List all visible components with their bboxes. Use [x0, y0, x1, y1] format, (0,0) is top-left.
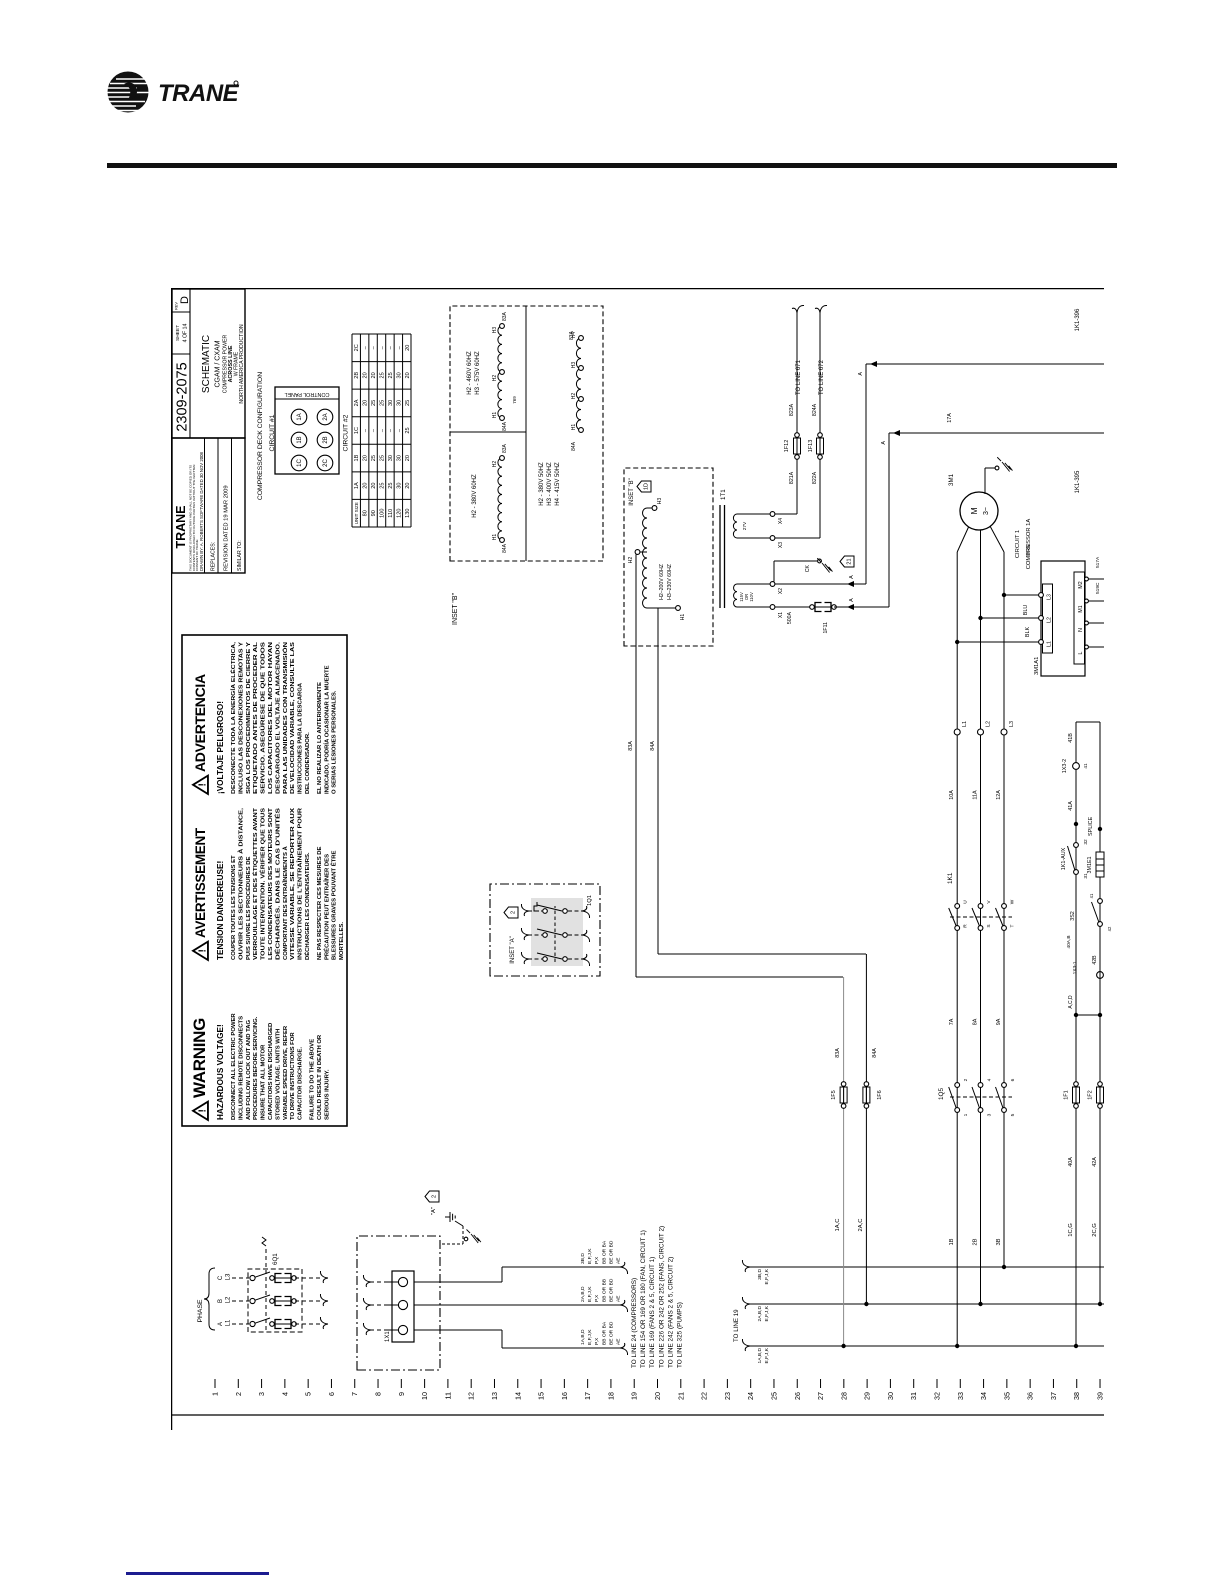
svg-text:BLESSURES GRAVES POUVANT ÊTRE: BLESSURES GRAVES POUVANT ÊTRE — [330, 851, 338, 960]
warning column ADVERTENCIA — [192, 641, 338, 794]
svg-text:110V: 110V — [749, 592, 754, 602]
svg-text:40A: 40A — [1068, 1157, 1074, 1167]
wire into 1X1 from phase B — [363, 1298, 398, 1310]
svg-text:H2: H2 — [628, 557, 634, 564]
svg-text:H3: H3 — [657, 498, 663, 505]
svg-text:SIMILAR TO:: SIMILAR TO: — [237, 540, 243, 571]
disconnect switch 6Q1 box — [248, 1237, 302, 1332]
svg-text:"A": "A" — [431, 1207, 437, 1215]
svg-text:A: A — [881, 441, 887, 445]
control circuit to line 671 — [775, 305, 804, 514]
transformer 1T1 secondary 27V winding X3 X4 — [733, 512, 784, 548]
line 28 rung 1A,C — [831, 977, 847, 1348]
svg-text:–: – — [363, 345, 369, 349]
svg-text:!: ! — [198, 783, 209, 786]
svg-text:SERVICIO. ASEGÚRESE DE QUE TO: SERVICIO. ASEGÚRESE DE QUE TODOS — [260, 642, 267, 794]
svg-text:1A: 1A — [354, 482, 360, 489]
svg-text:TOUTE INTERVENTION. VÉRIFIER: TOUTE INTERVENTION. VÉRIFIER QUE TOUS — [259, 808, 267, 960]
svg-text:11A: 11A — [973, 790, 979, 800]
svg-text:1A,C: 1A,C — [835, 1219, 841, 1232]
svg-text:L1: L1 — [1047, 641, 1053, 647]
svg-text:–: – — [388, 345, 394, 349]
svg-text:20: 20 — [363, 400, 369, 406]
transformer 1T1 core — [720, 489, 727, 608]
svg-text:ADVERTENCIA: ADVERTENCIA — [192, 674, 208, 772]
svg-text:SPLICE: SPLICE — [1088, 816, 1094, 836]
svg-text:ETIQUETADO ANTES DE PROCEDER A: ETIQUETADO ANTES DE PROCEDER AL — [253, 641, 259, 794]
svg-text:TRANE: TRANE — [174, 505, 188, 548]
svg-text:H3: H3 — [492, 327, 498, 334]
svg-text:1T1: 1T1 — [720, 489, 727, 500]
svg-text:30: 30 — [396, 455, 402, 461]
svg-text:1X3-1: 1X3-1 — [1072, 961, 1078, 974]
svg-text:2A,C: 2A,C — [858, 1219, 864, 1232]
svg-text:–: – — [380, 345, 386, 349]
svg-text:84A: 84A — [502, 543, 508, 553]
svg-text:REVISION DATED 19 MAR 2009: REVISION DATED 19 MAR 2009 — [224, 485, 230, 571]
ground symbols near 1X1 — [442, 1212, 481, 1244]
terminal block 1X1 — [385, 1271, 414, 1342]
svg-text:2B: 2B — [354, 372, 360, 379]
svg-text:6: 6 — [327, 1392, 336, 1396]
svg-text:HAZARDOUS VOLTAGE!: HAZARDOUS VOLTAGE! — [216, 1024, 225, 1120]
svg-text:INSET "B": INSET "B" — [629, 478, 635, 506]
svg-text:TO LINE 226 OR 242 OR 252 (FAN: TO LINE 226 OR 242 OR 252 (FANS, CIRCUIT… — [658, 1226, 665, 1368]
svg-text:84A: 84A — [502, 421, 508, 431]
rotated schematic — [171, 288, 1117, 1430]
svg-text:A: A — [858, 372, 864, 376]
svg-text:30: 30 — [388, 400, 394, 406]
breaker 1Q1 pole at 495 — [521, 928, 589, 942]
svg-text:32: 32 — [1083, 839, 1089, 845]
svg-text:FAILURE TO DO THE ABOVE: FAILURE TO DO THE ABOVE — [310, 1039, 316, 1120]
compressor circle 2A — [317, 409, 333, 425]
svg-text:1K1: 1K1 — [947, 872, 954, 884]
svg-text:27V: 27V — [742, 521, 748, 530]
svg-text:P,X: P,X — [594, 1256, 600, 1264]
svg-text:1F5: 1F5 — [831, 1090, 837, 1099]
svg-text:41: 41 — [1089, 893, 1094, 898]
svg-text:PARA LAS UNIDADES CON TRANSMIS: PARA LAS UNIDADES CON TRANSMISIÓN — [281, 642, 289, 794]
svg-text:1K1-396: 1K1-396 — [1075, 308, 1081, 331]
svg-text:COUPER TOUTES LES TENSIONS ET: COUPER TOUTES LES TENSIONS ET — [231, 855, 237, 960]
svg-text:!: ! — [198, 1109, 209, 1112]
svg-text:WARNING: WARNING — [190, 1018, 209, 1098]
heater box output wires 519C 517A — [1085, 556, 1104, 649]
svg-text:X4: X4 — [778, 518, 784, 524]
svg-text:9: 9 — [397, 1392, 406, 1396]
svg-text:1C,G: 1C,G — [1068, 1223, 1074, 1237]
svg-text:AE: AE — [616, 1257, 622, 1264]
svg-text:130: 130 — [405, 509, 411, 518]
svg-text:2: 2 — [234, 1392, 243, 1396]
terminal 1X3-2 — [1062, 733, 1089, 811]
svg-text:L1: L1 — [962, 721, 968, 727]
svg-text:11: 11 — [443, 1392, 452, 1399]
svg-text:DÉCHARGER LES CONDENSATEURS.: DÉCHARGER LES CONDENSATEURS. — [303, 852, 311, 960]
winding option 50HZ taps — [539, 330, 583, 505]
rung 38-39 end connector — [1076, 721, 1100, 723]
svg-text:S: S — [986, 924, 992, 927]
svg-text:BB OR BB: BB OR BB — [601, 1279, 607, 1302]
breaker 1Q5 linkage — [938, 1088, 1012, 1101]
svg-text:PHASE: PHASE — [197, 1299, 204, 1323]
svg-text:12: 12 — [467, 1392, 476, 1400]
svg-text:CIRCUIT #2: CIRCUIT #2 — [343, 414, 350, 451]
svg-text:24: 24 — [746, 1392, 755, 1400]
svg-text:41A: 41A — [1068, 801, 1074, 811]
svg-text:30: 30 — [886, 1392, 895, 1400]
svg-text:M1: M1 — [1078, 605, 1084, 612]
svg-text:35: 35 — [1002, 1392, 1011, 1400]
wire feed from X2 — [775, 575, 866, 587]
svg-text:BLK: BLK — [1025, 627, 1031, 638]
switch 3S2 — [1070, 893, 1112, 931]
svg-text:25: 25 — [380, 483, 386, 489]
svg-text:3M1: 3M1 — [948, 473, 955, 486]
svg-text:18: 18 — [606, 1392, 615, 1400]
compressor motor 3M1 — [948, 473, 1032, 729]
svg-text:¡VOLTAJE PELIGROSO!: ¡VOLTAJE PELIGROSO! — [216, 701, 225, 794]
wire into 1X1 from phase C — [363, 1275, 398, 1287]
svg-text:10A: 10A — [949, 790, 955, 800]
line 38 rung 1C,G — [1064, 722, 1080, 1348]
svg-text:31: 31 — [1083, 873, 1089, 879]
svg-text:1Q1: 1Q1 — [587, 895, 593, 906]
compressor deck configuration heading — [257, 372, 276, 500]
svg-text:BE OR BD: BE OR BD — [608, 1321, 614, 1345]
svg-text:H1: H1 — [571, 424, 577, 431]
svg-text:H1: H1 — [492, 412, 498, 419]
svg-text:1: 1 — [963, 1113, 969, 1116]
breaker 1Q1 pole at 471 — [521, 952, 589, 966]
svg-text:A: A — [849, 575, 855, 579]
svg-text:TO LINE 154 OR 169 OR 180 (FAN: TO LINE 154 OR 169 OR 180 (FAN, CIRCUIT … — [640, 1230, 647, 1368]
svg-text:38: 38 — [1072, 1392, 1081, 1400]
svg-text:BRN: BRN — [1026, 544, 1032, 555]
svg-text:COMPORTANT DES ENTRAÎNEMENTS À: COMPORTANT DES ENTRAÎNEMENTS À — [281, 845, 289, 960]
svg-text:20: 20 — [363, 455, 369, 461]
svg-text:83A: 83A — [502, 443, 508, 453]
svg-text:25: 25 — [371, 455, 377, 461]
svg-text:E,F,J,K: E,F,J,K — [587, 1286, 593, 1302]
wires 1X1 to feeder ends — [414, 1262, 628, 1355]
svg-text:–: – — [380, 428, 386, 432]
crankcase heater drops BLK BLU BRN — [955, 544, 1038, 644]
wire 500A feed from X1 — [775, 433, 889, 633]
svg-text:1Q5: 1Q5 — [938, 1088, 945, 1101]
svg-text:H2–200V 60HZ: H2–200V 60HZ — [659, 564, 665, 600]
svg-text:H4 - 415V 50HZ: H4 - 415V 50HZ — [555, 462, 561, 506]
svg-text:H3: H3 — [571, 362, 577, 369]
svg-text:BE OR BD: BE OR BD — [608, 1240, 614, 1264]
svg-text:5: 5 — [1010, 1113, 1016, 1116]
svg-text:L: L — [1078, 651, 1084, 654]
svg-text:22: 22 — [700, 1392, 709, 1400]
svg-text:H3 - 575V 60HZ: H3 - 575V 60HZ — [475, 351, 481, 395]
svg-text:39: 39 — [1096, 1392, 1105, 1400]
svg-text:BB OR BA: BB OR BA — [601, 1321, 607, 1345]
svg-text:H2: H2 — [492, 375, 498, 382]
TRANE logo — [0, 0, 300, 145]
svg-text:BB OR BA: BB OR BA — [601, 1240, 607, 1264]
svg-text:42B: 42B — [1092, 955, 1098, 965]
phase C incoming line L3 — [218, 1271, 328, 1283]
svg-text:3B,D: 3B,D — [757, 1269, 763, 1280]
svg-text:8A: 8A — [973, 1018, 979, 1025]
svg-text:COMPRESSOR DECK CONFIGURATION: COMPRESSOR DECK CONFIGURATION — [257, 372, 264, 500]
svg-text:20: 20 — [653, 1392, 662, 1400]
svg-text:INCLUSO LAS DESCONEXIONES REMO: INCLUSO LAS DESCONEXIONES REMOTAS Y — [238, 642, 244, 794]
svg-text:TO LINE 325 (PUMPS): TO LINE 325 (PUMPS) — [677, 1302, 684, 1368]
svg-text:M: M — [969, 507, 979, 514]
svg-text:6Q1: 6Q1 — [272, 1253, 279, 1265]
svg-text:25: 25 — [769, 1392, 778, 1400]
svg-text:4 OF 14: 4 OF 14 — [183, 324, 189, 343]
svg-text:83A: 83A — [628, 741, 634, 751]
svg-text:P,X: P,X — [594, 1337, 600, 1345]
svg-text:–: – — [396, 345, 402, 349]
svg-text:20: 20 — [363, 372, 369, 378]
drawing frame border — [171, 288, 1104, 1430]
svg-text:2: 2 — [963, 1078, 969, 1081]
svg-text:TO LINE 242 (FANS 2 & 5, CIRCU: TO LINE 242 (FANS 2 & 5, CIRCUIT 2) — [667, 1257, 674, 1368]
svg-text:84A: 84A — [650, 741, 656, 751]
svg-text:SCHEMATIC: SCHEMATIC — [201, 335, 212, 393]
svg-text:L1: L1 — [226, 1319, 232, 1326]
svg-text:X1: X1 — [778, 612, 784, 618]
svg-text:L3: L3 — [226, 1273, 232, 1280]
svg-text:40A,B: 40A,B — [1066, 935, 1072, 948]
svg-text:3M1E1: 3M1E1 — [1087, 856, 1093, 873]
svg-text:INCLUDING REMOTE DISCONNECTS: INCLUDING REMOTE DISCONNECTS — [238, 1016, 244, 1120]
svg-text:D: D — [179, 296, 191, 304]
svg-text:W: W — [1010, 899, 1016, 904]
svg-text:E,F,J,K: E,F,J,K — [764, 1347, 770, 1363]
svg-text:TO LINE 169 (FANS 2 & 5, CIRCU: TO LINE 169 (FANS 2 & 5, CIRCUIT 1) — [649, 1257, 656, 1368]
svg-text:INSET "B": INSET "B" — [452, 592, 459, 625]
svg-text:8: 8 — [374, 1392, 383, 1396]
title block info box — [172, 438, 245, 573]
compressor circle 2B — [317, 432, 333, 448]
svg-text:AE: AE — [616, 1295, 622, 1302]
svg-text:20: 20 — [363, 483, 369, 489]
svg-text:CONTROL PANEL: CONTROL PANEL — [285, 391, 330, 397]
svg-text:SERIOUS INJURY.: SERIOUS INJURY. — [324, 1069, 330, 1120]
wire 84A upper run — [650, 608, 866, 954]
svg-text:CGAM / CXAM: CGAM / CXAM — [215, 340, 222, 387]
inset A panel dash-dot box (incoming) — [357, 1191, 440, 1370]
svg-text:2B: 2B — [323, 436, 329, 443]
svg-text:1C: 1C — [297, 458, 303, 466]
svg-text:42: 42 — [1107, 926, 1112, 931]
svg-text:29: 29 — [863, 1392, 872, 1400]
svg-text:2A,B,D: 2A,B,D — [757, 1306, 763, 1322]
svg-text:VARIABLE SPEED DRIVE, REFER: VARIABLE SPEED DRIVE, REFER — [283, 1025, 289, 1120]
svg-text:VITESSE VARIABLE, SE REPORTER: VITESSE VARIABLE, SE REPORTER AUX — [290, 808, 296, 960]
compressor circle 1B — [291, 432, 307, 448]
warning column WARNING — [190, 1013, 330, 1120]
footer blue mark — [126, 1572, 269, 1575]
svg-text:42A: 42A — [1092, 1157, 1098, 1167]
svg-text:TO LINE 19: TO LINE 19 — [733, 1309, 740, 1342]
svg-text:A: A — [849, 598, 855, 602]
svg-text:26: 26 — [793, 1392, 802, 1400]
svg-text:31: 31 — [909, 1392, 918, 1400]
svg-text:H1: H1 — [680, 614, 686, 621]
tag 21 — [840, 556, 854, 567]
svg-text:E,F,J,K: E,F,J,K — [587, 1248, 593, 1264]
svg-text:3~: 3~ — [983, 507, 990, 515]
svg-text:1K1-395: 1K1-395 — [1075, 470, 1081, 493]
svg-text:17A: 17A — [947, 413, 953, 423]
feed line to 1K1-395 — [881, 430, 1104, 493]
junction A,C,D — [1068, 995, 1102, 1017]
svg-text:1F1: 1F1 — [1064, 1090, 1070, 1099]
svg-text:T: T — [1010, 924, 1016, 927]
header rule — [107, 163, 1117, 168]
svg-text:3: 3 — [257, 1392, 266, 1396]
inset A label — [504, 907, 518, 964]
svg-text:824A: 824A — [812, 403, 818, 416]
svg-text:2: 2 — [511, 911, 517, 914]
svg-text:1F13: 1F13 — [808, 440, 814, 453]
phase A incoming line L1 — [218, 1317, 328, 1329]
svg-text:PROCEDURES BEFORE SERVICING.: PROCEDURES BEFORE SERVICING. — [253, 1016, 259, 1120]
auxiliary contact 1K1-AUX — [1061, 839, 1089, 879]
svg-text:100: 100 — [380, 509, 386, 518]
svg-text:TENSION DANGEREUSE!: TENSION DANGEREUSE! — [216, 861, 225, 960]
svg-text:E,F,J,K: E,F,J,K — [764, 1268, 770, 1284]
svg-text:27: 27 — [816, 1392, 825, 1400]
svg-text:TO LINE 671: TO LINE 671 — [796, 359, 802, 395]
svg-text:30: 30 — [396, 483, 402, 489]
ladder line numbers 1-39 — [211, 1379, 1105, 1400]
svg-text:3: 3 — [987, 1113, 993, 1116]
svg-text:20: 20 — [371, 372, 377, 378]
svg-text:20: 20 — [371, 483, 377, 489]
svg-text:UNIT SIZE: UNIT SIZE — [354, 502, 359, 524]
contactor 1K1 linkage — [947, 872, 1012, 917]
svg-text:TO LINE 24 (COMPRESSORS): TO LINE 24 (COMPRESSORS) — [631, 1278, 638, 1368]
svg-text:1F2: 1F2 — [1088, 1090, 1094, 1099]
svg-text:BE OR BD: BE OR BD — [608, 1278, 614, 1302]
svg-text:21: 21 — [847, 558, 853, 564]
svg-text:90: 90 — [371, 510, 377, 516]
svg-text:21: 21 — [676, 1392, 685, 1400]
svg-text:41B: 41B — [1068, 733, 1074, 743]
svg-text:1F12: 1F12 — [784, 440, 790, 453]
fuse size table — [352, 334, 411, 527]
svg-text:36: 36 — [1026, 1392, 1035, 1400]
svg-text:1K1-AUX: 1K1-AUX — [1061, 847, 1067, 870]
svg-text:–: – — [396, 428, 402, 432]
svg-text:2C: 2C — [354, 344, 360, 351]
svg-text:INSURE THAT ALL MOTOR: INSURE THAT ALL MOTOR — [261, 1044, 267, 1120]
svg-text:CAPACITORS HAVE DISCHARGED: CAPACITORS HAVE DISCHARGED — [268, 1023, 274, 1120]
svg-text:25: 25 — [380, 455, 386, 461]
svg-text:–: – — [388, 428, 394, 432]
svg-text:25: 25 — [371, 400, 377, 406]
inset B transformer box — [624, 468, 713, 646]
svg-text:–: – — [363, 428, 369, 432]
svg-text:25: 25 — [388, 372, 394, 378]
svg-text:H2 - 380V 60HZ: H2 - 380V 60HZ — [472, 474, 478, 518]
phase label and brace — [197, 1268, 215, 1330]
svg-text:COULD RESULT IN DEATH OR: COULD RESULT IN DEATH OR — [317, 1034, 323, 1120]
svg-text:INSET "A": INSET "A" — [510, 936, 516, 964]
svg-text:LOS CAPACITORES DEL MOTOR HAYA: LOS CAPACITORES DEL MOTOR HAYAN — [268, 642, 274, 794]
svg-text:84A: 84A — [872, 1048, 878, 1058]
svg-text:3S2: 3S2 — [1070, 911, 1076, 921]
svg-text:20: 20 — [405, 372, 411, 378]
svg-text:PRÉCAUTION PEUT ENTRAÎNER DES: PRÉCAUTION PEUT ENTRAÎNER DES — [322, 854, 330, 960]
terminal 1X3-1 — [1072, 961, 1103, 978]
svg-text:–: – — [371, 428, 377, 432]
svg-text:OUVRIR LES SECTIONNEURS À DIST: OUVRIR LES SECTIONNEURS À DISTANCE, — [237, 808, 244, 960]
svg-text:DISCONNECT ALL ELECTRIC POWER: DISCONNECT ALL ELECTRIC POWER — [231, 1013, 237, 1120]
svg-text:CIRCUIT 1: CIRCUIT 1 — [1015, 530, 1021, 558]
svg-text:TO LINE 672: TO LINE 672 — [819, 359, 825, 395]
svg-text:DRAWN BY: A. ROBERTS SOFTWA: DRAWN BY: A. ROBERTS SOFTWARE DATED 30 N… — [199, 451, 204, 571]
svg-text:30: 30 — [396, 372, 402, 378]
svg-text:1F11: 1F11 — [823, 622, 829, 634]
svg-text:H1: H1 — [492, 534, 498, 541]
svg-text:1X3-2: 1X3-2 — [1062, 759, 1068, 773]
wire into 1X1 from phase A — [363, 1323, 398, 1335]
svg-text:1B: 1B — [297, 436, 303, 443]
svg-text:16: 16 — [560, 1392, 569, 1400]
feed line to 1K1-396 — [858, 308, 1104, 584]
svg-text:TO DRIVE INSTRUCTIONS FOR: TO DRIVE INSTRUCTIONS FOR — [290, 1032, 296, 1120]
svg-text:DESCARGADO EL VOLTAJE ALMACENA: DESCARGADO EL VOLTAJE ALMACENADO. — [275, 642, 281, 794]
svg-text:120: 120 — [396, 509, 402, 518]
svg-text:DEL CONDENSADOR.: DEL CONDENSADOR. — [305, 732, 311, 794]
svg-text:2309-2075: 2309-2075 — [175, 362, 191, 431]
svg-text:517A: 517A — [1095, 556, 1101, 568]
svg-text:AE: AE — [616, 1338, 622, 1345]
line rung 3B compressor phase — [996, 721, 1017, 1269]
feeder destination label stacks — [580, 1240, 622, 1345]
svg-text:2A: 2A — [354, 399, 360, 406]
svg-text:33: 33 — [956, 1392, 965, 1400]
control panel box — [275, 387, 339, 474]
svg-text:41: 41 — [1083, 763, 1089, 769]
svg-text:1D: 1D — [644, 483, 650, 490]
svg-text:2A,B,D: 2A,B,D — [580, 1286, 586, 1302]
svg-text:2C: 2C — [323, 458, 329, 466]
warning text block — [182, 635, 347, 1126]
svg-text:110: 110 — [388, 509, 394, 518]
inset B option box — [450, 306, 603, 561]
bus 3B,D — [742, 1260, 1104, 1285]
svg-text:X2: X2 — [778, 588, 784, 594]
svg-text:25: 25 — [380, 400, 386, 406]
svg-text:19: 19 — [630, 1392, 639, 1400]
transformer 1T1 primary winding — [628, 498, 686, 621]
svg-text:E,F,J,K: E,F,J,K — [587, 1329, 593, 1345]
svg-text:34: 34 — [979, 1392, 988, 1400]
svg-text:1A: 1A — [297, 413, 303, 420]
to-line destination text block — [631, 1226, 684, 1368]
svg-text:A: A — [218, 1322, 224, 1326]
svg-text:23: 23 — [723, 1392, 732, 1400]
svg-text:1C: 1C — [354, 427, 360, 434]
svg-text:1: 1 — [211, 1392, 220, 1396]
svg-text:1B: 1B — [354, 454, 360, 461]
svg-text:INSTRUCCIONES PARA LA DESCARGA: INSTRUCCIONES PARA LA DESCARGA — [298, 682, 304, 794]
svg-text:L3: L3 — [1047, 594, 1053, 600]
